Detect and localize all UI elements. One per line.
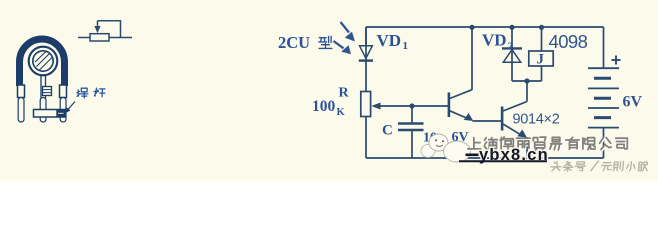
svg-text:1: 1 xyxy=(403,40,409,52)
bottom rail wire xyxy=(366,157,604,159)
lamp middle pin xyxy=(40,98,46,123)
label 10u 6V xyxy=(423,130,469,146)
label 焊好 xyxy=(77,88,105,98)
left wire (VD1 anode to rail) xyxy=(365,27,367,47)
wiper arrow wire (R to Q1 base) xyxy=(371,103,448,110)
lamp glass arch xyxy=(20,39,65,86)
transistor Q1 xyxy=(449,90,473,121)
label 9014x2 xyxy=(513,112,560,128)
light arrow 1 xyxy=(341,22,356,42)
relay coil J xyxy=(529,51,553,68)
junction dot (collector node) xyxy=(524,78,529,83)
capacitor C xyxy=(398,106,424,158)
svg-text:K: K xyxy=(337,107,346,118)
junction dot (Q1 collector at rail) xyxy=(469,25,474,30)
lamp base crossbar xyxy=(34,110,66,118)
J bottom wire xyxy=(541,66,543,81)
diode VD2 xyxy=(502,27,522,81)
transistor Q2 xyxy=(502,102,527,138)
Q2 collector wire xyxy=(526,81,528,102)
lamp middle stem xyxy=(41,76,52,99)
svg-text:2: 2 xyxy=(508,41,514,53)
lamp left pin xyxy=(18,98,24,123)
rheostat symbol (top-left) xyxy=(78,21,132,41)
Q1 emitter to Q2 base wire xyxy=(473,120,502,122)
svg-text:6V: 6V xyxy=(623,94,643,111)
watermark credit line xyxy=(550,161,648,172)
svg-text:4098: 4098 xyxy=(549,31,588,52)
watermark ybx8.cn xyxy=(459,146,549,164)
label VD2 xyxy=(482,31,514,53)
solder pointer arrow xyxy=(65,102,76,114)
svg-text:J: J xyxy=(537,52,545,68)
relay coil J branch wire xyxy=(541,27,543,51)
svg-text:9014×2: 9014×2 xyxy=(513,112,560,128)
svg-text:VD: VD xyxy=(377,31,402,50)
lamp photocell disc xyxy=(29,47,58,76)
plus sign xyxy=(612,56,621,65)
solder blob on crossbar xyxy=(57,110,65,116)
svg-text:R: R xyxy=(339,86,350,101)
battery - lead xyxy=(603,128,605,158)
label C xyxy=(382,123,393,139)
label R xyxy=(339,86,350,101)
label 6V xyxy=(623,94,643,111)
VD2/J node wire xyxy=(512,80,542,82)
mascot blob xyxy=(421,134,471,162)
junction dot (J at rail) xyxy=(539,25,544,30)
svg-text:100: 100 xyxy=(312,98,336,115)
battery cells xyxy=(588,68,619,127)
Q1 collector wire xyxy=(471,27,473,90)
Q2 emitter wire xyxy=(526,137,528,158)
junction dot (base node) xyxy=(409,103,414,108)
label 2CU 型 xyxy=(278,33,332,52)
label 100K xyxy=(312,98,346,118)
lamp right pin xyxy=(60,98,66,123)
label 4098 xyxy=(549,31,588,52)
svg-text:2CU: 2CU xyxy=(278,33,310,52)
light arrow 2 xyxy=(334,41,352,54)
svg-text:VD: VD xyxy=(482,31,507,50)
junction dot (VD2 at rail) xyxy=(509,25,514,30)
svg-text:C: C xyxy=(382,123,393,139)
top rail wire xyxy=(366,26,604,28)
potentiometer R body xyxy=(361,92,371,159)
lamp left lead box xyxy=(18,85,25,98)
lamp right lead box xyxy=(60,85,67,98)
label VD1 xyxy=(377,31,409,52)
watermark company name xyxy=(468,137,629,151)
photodiode VD1 xyxy=(359,27,373,93)
battery + lead xyxy=(603,27,605,68)
